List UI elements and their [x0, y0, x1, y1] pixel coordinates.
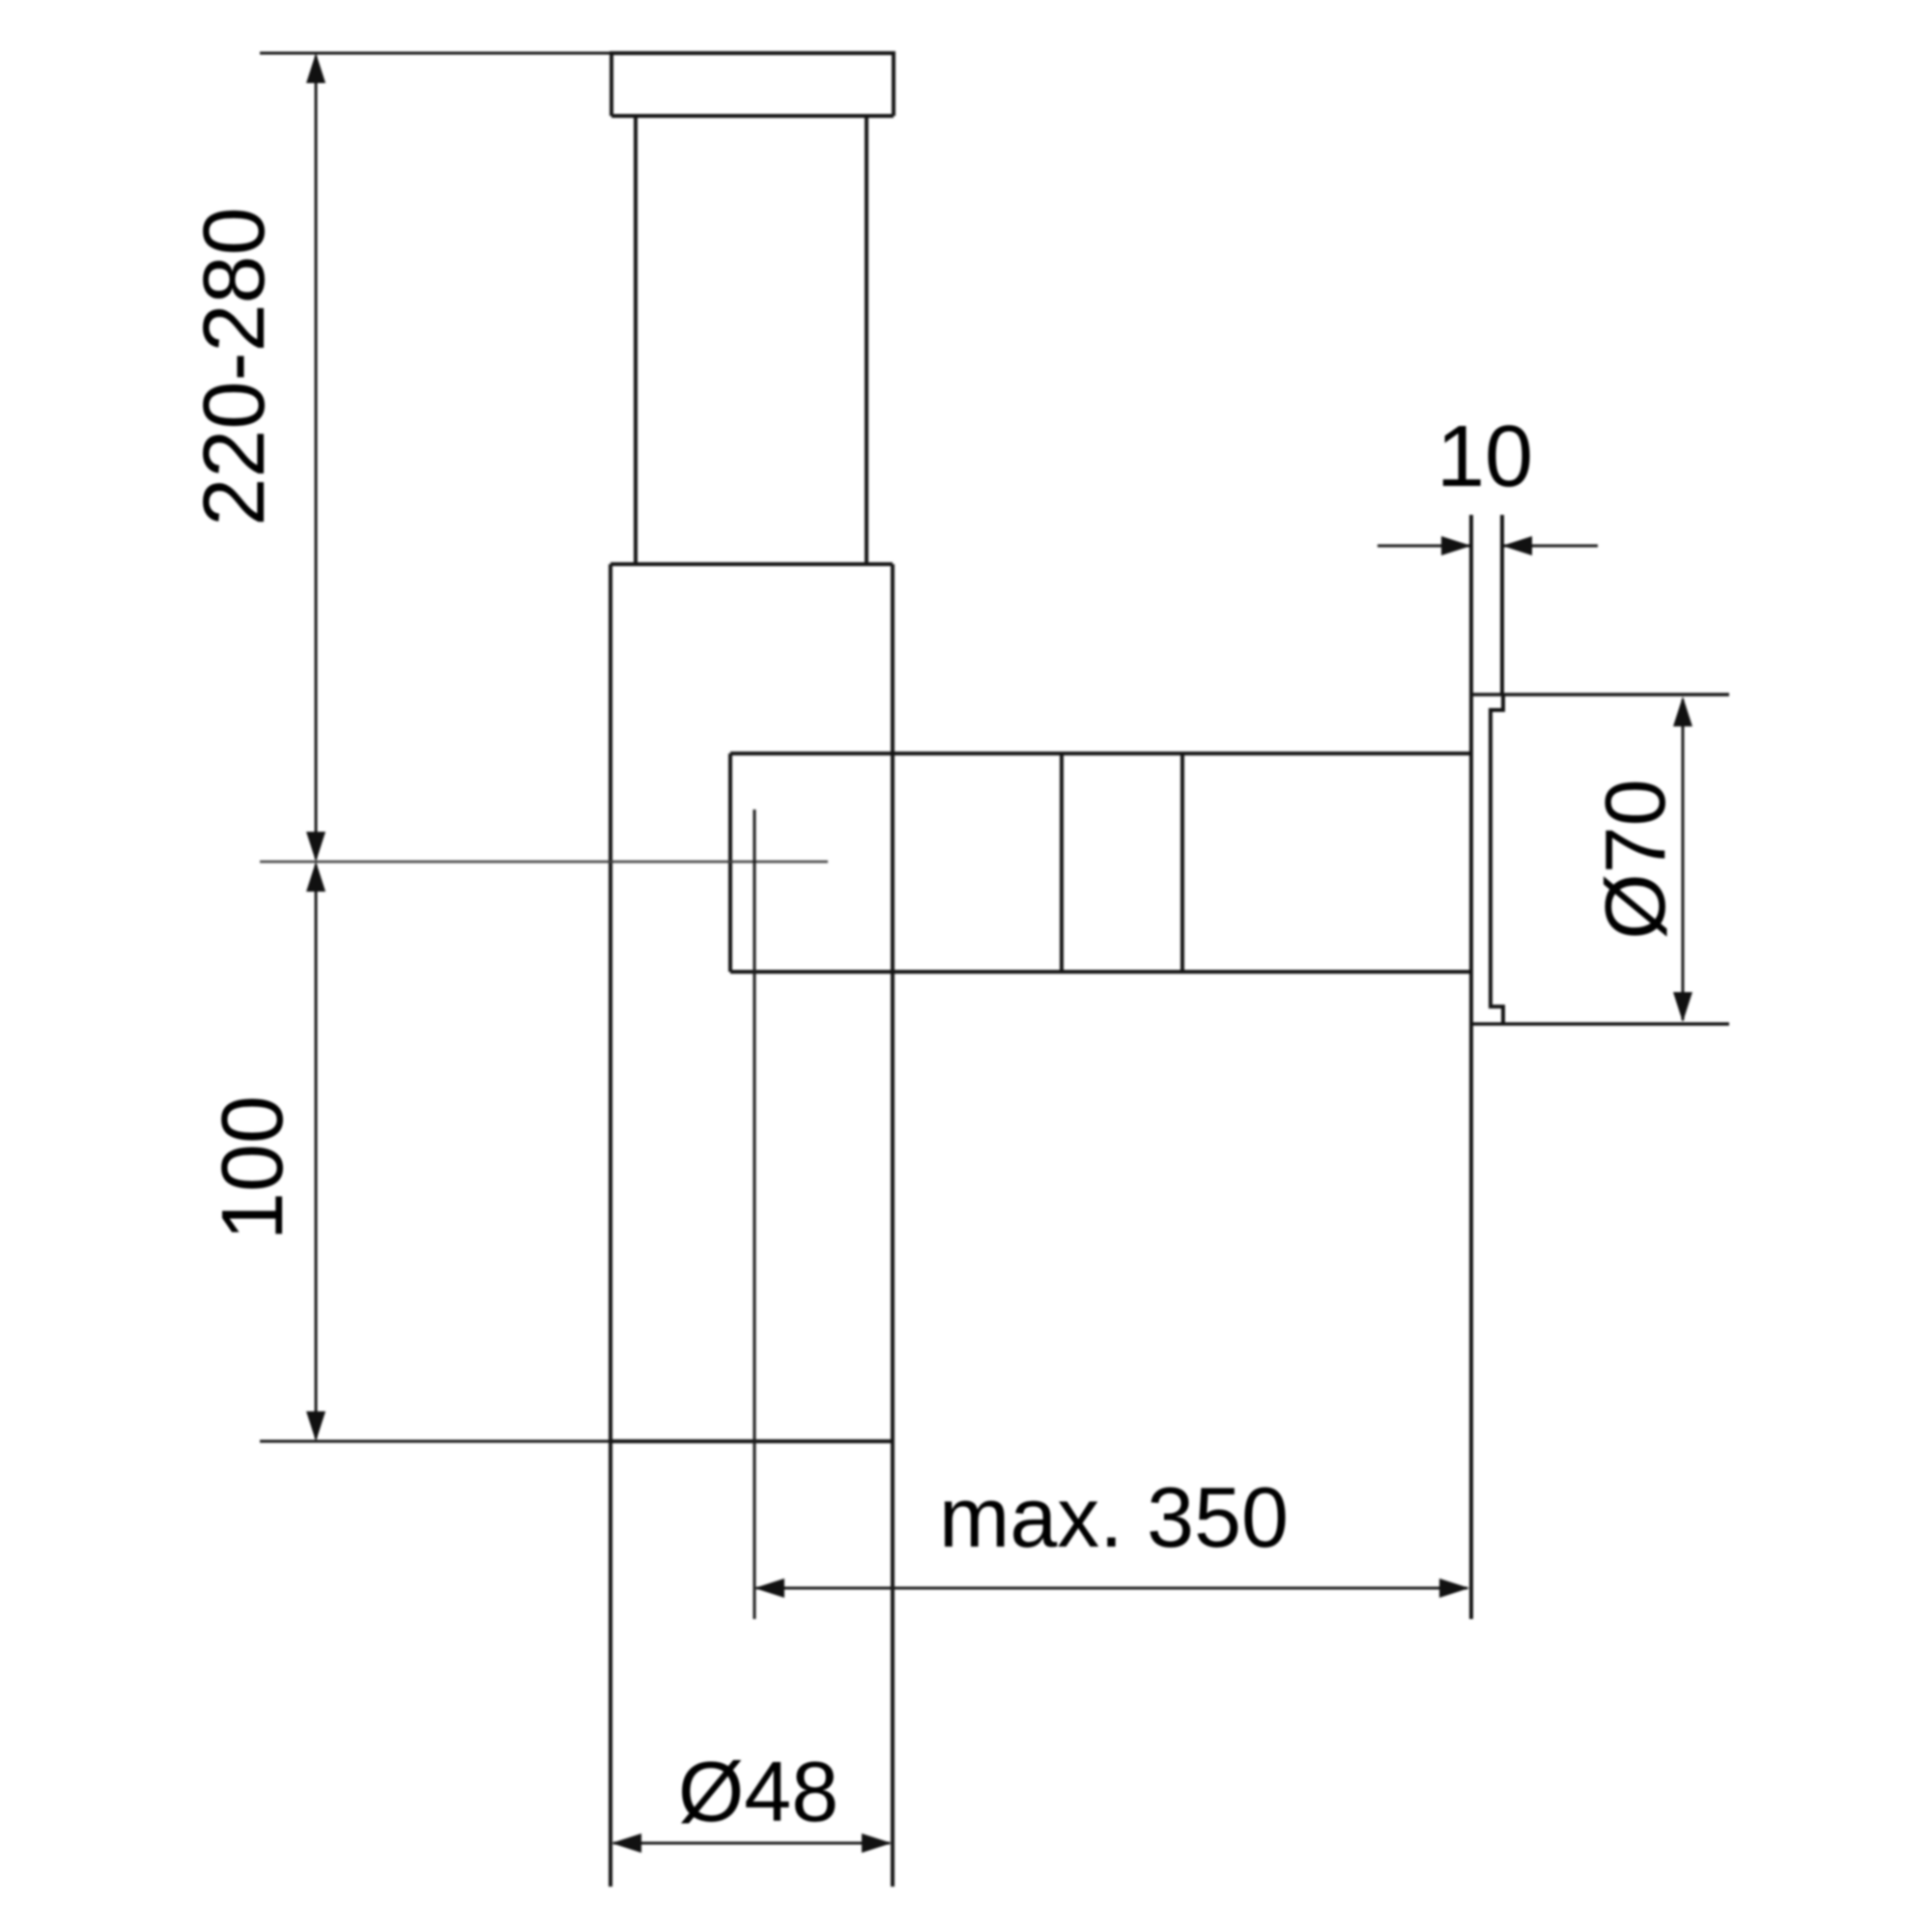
svg-text:220-280: 220-280 — [186, 207, 283, 526]
svg-text:max. 350: max. 350 — [939, 1469, 1289, 1565]
svg-text:10: 10 — [1436, 409, 1533, 505]
svg-text:Ø70: Ø70 — [1587, 779, 1683, 939]
svg-text:100: 100 — [205, 1095, 301, 1240]
svg-text:Ø48: Ø48 — [678, 1744, 838, 1839]
